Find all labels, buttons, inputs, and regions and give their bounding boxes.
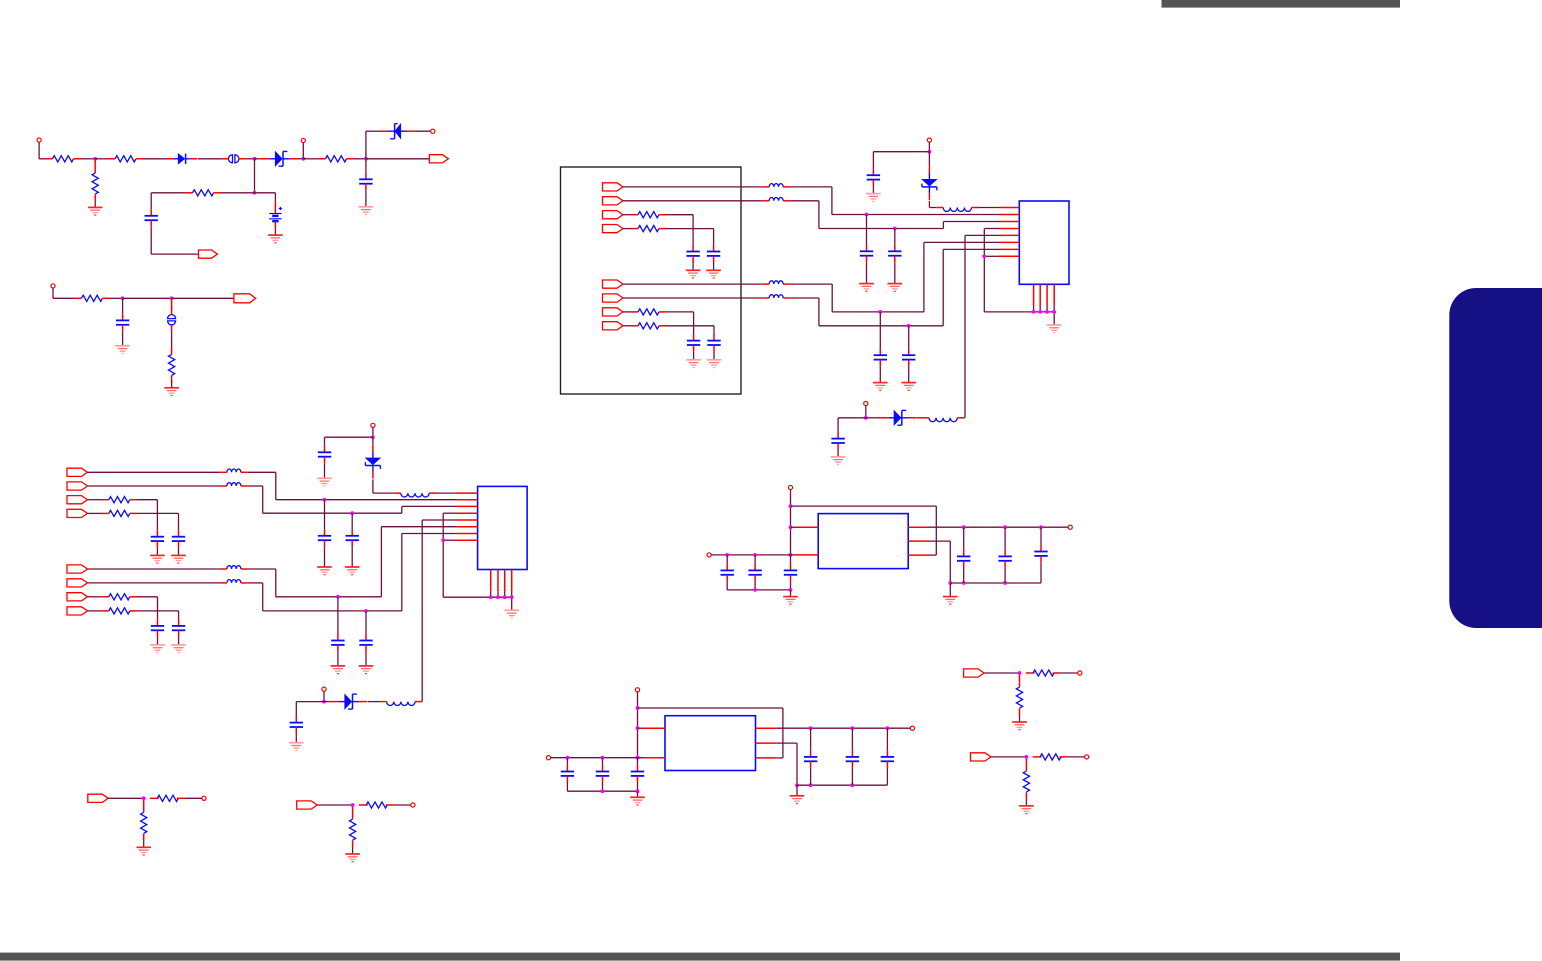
- node R1f: [754, 588, 757, 591]
- inductor L4: [380, 702, 422, 706]
- port OUT1: [429, 155, 448, 163]
- VR1 pin ADJ: [908, 540, 929, 542]
- capacitor C26: [784, 564, 797, 582]
- wire PA8-res: [623, 325, 631, 327]
- capacitor C23: [290, 716, 303, 734]
- wire PA7-res: [623, 311, 631, 313]
- wire REG1 left bus: [727, 589, 790, 591]
- ground G21: [317, 567, 332, 575]
- zener D5: [878, 410, 916, 425]
- VR1 pin OUT: [908, 526, 929, 528]
- wire C21-gnd: [365, 652, 367, 666]
- node R1h: [962, 526, 965, 529]
- capacitor C24: [721, 564, 734, 582]
- node R1l: [962, 581, 965, 584]
- terminal J11: [1068, 525, 1072, 529]
- wire C14-gnd: [156, 548, 158, 556]
- wire A11-D5: [866, 417, 881, 419]
- wire row5 route: [790, 242, 999, 312]
- resistor R10: [631, 309, 666, 315]
- wire R1b-pinIN: [791, 526, 797, 528]
- wire C10 stem: [879, 312, 881, 349]
- port PB6: [67, 579, 88, 587]
- wire R11-cap: [666, 326, 714, 334]
- wire R2b-pinIN: [638, 727, 644, 729]
- wire C35 stem: [886, 728, 888, 750]
- node R1d: [726, 553, 729, 556]
- capacitor C5: [707, 245, 720, 263]
- wire B row5 route: [248, 527, 457, 597]
- port PA2: [603, 197, 624, 205]
- port FB: [199, 250, 218, 258]
- node A3: [879, 310, 882, 313]
- node N4: [364, 157, 367, 160]
- node A9: [1053, 310, 1056, 313]
- ferrite bead FB8: [220, 483, 248, 486]
- RCB series pin2: [386, 804, 394, 806]
- wire C24 stem: [726, 555, 728, 564]
- wire PA4-res: [623, 228, 631, 230]
- U2 pin 5: [457, 519, 478, 521]
- ground G24: [359, 666, 374, 674]
- capacitor C19: [346, 529, 359, 547]
- resistor R2: [92, 173, 98, 194]
- wire C17-gnd: [178, 637, 180, 645]
- ground G4: [115, 346, 130, 354]
- capacitor C10: [874, 349, 887, 367]
- wire REG2 left bus: [567, 790, 637, 792]
- wire REG2 input line: [551, 757, 643, 759]
- wire RCD in: [991, 756, 1027, 758]
- wire N4 up: [366, 131, 380, 159]
- capacitor C28: [998, 550, 1011, 568]
- wire B row1 route: [248, 472, 457, 499]
- battery BT1: [269, 202, 282, 229]
- wire U1 gnd net: [984, 229, 1054, 326]
- wire R2k-gnd: [796, 785, 798, 796]
- U2 pin 7: [457, 533, 478, 535]
- node A11: [864, 416, 867, 419]
- terminal J14: [910, 726, 914, 730]
- wire B10-C22: [325, 437, 373, 446]
- RCD series pin2: [1060, 756, 1068, 758]
- RCB shunt pin2: [352, 840, 354, 847]
- wire C28 stem: [1004, 527, 1006, 550]
- wire C11-gnd: [908, 366, 910, 382]
- ferrite bead FB12: [220, 580, 248, 583]
- ground G5: [164, 388, 179, 396]
- wire C19-gnd: [351, 547, 353, 567]
- node R1e: [754, 553, 757, 556]
- wire row2 route: [790, 201, 999, 229]
- node R2m: [851, 784, 854, 787]
- node RCD: [1025, 755, 1028, 758]
- wire C10-gnd: [879, 366, 881, 382]
- node R2e: [601, 756, 604, 759]
- port PA6: [603, 294, 624, 302]
- wire C31 stem: [602, 758, 604, 765]
- resistor R1: [46, 156, 81, 162]
- wire F1-N2: [246, 158, 255, 160]
- port PRCC: [964, 669, 985, 677]
- node B5: [442, 539, 445, 542]
- ground RCCg: [1012, 722, 1027, 730]
- VR2 pin EN: [756, 757, 777, 759]
- wire R14-cap: [137, 597, 158, 620]
- wire C18-gnd: [324, 547, 326, 567]
- wire R1-J: [81, 158, 96, 160]
- U1 pin 4: [999, 228, 1019, 230]
- U1 bottom pin 11: [1046, 284, 1048, 306]
- zener D2: [259, 151, 297, 166]
- wire C29 stem: [1040, 527, 1042, 545]
- wire C19 stem: [351, 513, 353, 529]
- wire J1 drop: [38, 142, 40, 159]
- terminal RCBt: [411, 803, 415, 807]
- ground G23: [331, 666, 346, 674]
- RCB series pin: [359, 804, 368, 806]
- wire R12-cap: [137, 500, 158, 530]
- U2 pin 4: [457, 512, 478, 514]
- ground G16: [831, 457, 846, 465]
- ground G25: [504, 610, 519, 618]
- U1 bottom pin 9: [1033, 284, 1035, 306]
- wire REG1 top rail: [791, 506, 937, 555]
- RCC series pin: [1026, 672, 1035, 674]
- ground G6: [686, 270, 701, 278]
- connector box outline: [561, 167, 742, 394]
- resistor R13: [102, 510, 137, 516]
- wire J9 drop: [790, 490, 792, 555]
- wire U1 bpin10 drop: [1039, 306, 1041, 312]
- wire J4 drop: [53, 288, 74, 298]
- wire N5-BT1: [255, 193, 276, 202]
- wire U1 pin5 net: [965, 235, 999, 417]
- ground G7: [706, 270, 721, 278]
- wire PB1-bead: [88, 471, 220, 473]
- wire C34 drop: [851, 768, 853, 785]
- capacitor C17: [172, 619, 185, 637]
- wire PA5-bead: [623, 283, 762, 285]
- wire C7-gnd: [713, 352, 715, 360]
- ground G3: [268, 235, 283, 243]
- U2 bottom pin 10: [497, 570, 499, 592]
- U1 bottom pin 10: [1039, 284, 1041, 306]
- wire J2 drop: [302, 143, 304, 159]
- resistor RCDb: [1023, 771, 1029, 792]
- port PB1: [67, 468, 88, 476]
- port PB7: [67, 593, 88, 601]
- wire RCC in: [984, 672, 1020, 674]
- resistor R14: [102, 594, 137, 600]
- U2 pin 6: [457, 526, 478, 528]
- node R1c: [789, 553, 792, 556]
- VR2 pin IN: [643, 727, 665, 729]
- wire C30 drop: [566, 783, 568, 792]
- wire U1 bpin11 drop: [1046, 306, 1048, 312]
- node R2h: [809, 727, 812, 730]
- capacitor C3: [116, 314, 129, 332]
- node R2l: [809, 784, 812, 787]
- wire R10-cap: [666, 312, 694, 334]
- ferrite bead FB7: [762, 281, 790, 284]
- RCA shunt pin2: [143, 834, 145, 841]
- wire D2-N3: [297, 158, 303, 160]
- wire C27 stem: [963, 527, 965, 550]
- U1 pin 1: [999, 207, 1019, 209]
- resistor RCDa: [1040, 754, 1061, 760]
- RCD series pin: [1033, 756, 1042, 758]
- capacitor C13: [831, 432, 844, 450]
- wire C26 stem: [790, 555, 792, 564]
- node R2c: [636, 756, 639, 759]
- node A7: [1039, 310, 1042, 313]
- node B7: [496, 596, 499, 599]
- ground G30: [630, 797, 645, 805]
- resistor R8: [631, 212, 666, 218]
- wire PA2-bead: [623, 200, 762, 202]
- ground RCBg: [345, 854, 360, 862]
- wire REG2 adj route: [776, 743, 797, 785]
- port PA5: [603, 280, 624, 288]
- resistor R7: [169, 347, 175, 382]
- port PA4: [603, 225, 624, 233]
- port PA8: [603, 322, 624, 330]
- RCC shunt pin2: [1019, 708, 1021, 715]
- wire C21 stem: [365, 611, 367, 634]
- wire B row6 route: [248, 534, 457, 611]
- RCA shunt pin: [143, 800, 145, 812]
- node R1b: [789, 526, 792, 529]
- navy side tab: [1449, 288, 1542, 628]
- node R2i: [851, 727, 854, 730]
- wire R3-D1: [143, 158, 167, 160]
- ground G29: [943, 597, 958, 605]
- capacitor C33: [804, 750, 817, 768]
- wire main in: [39, 158, 45, 160]
- capacitor C30: [561, 765, 574, 783]
- wire FB2-R7: [171, 332, 173, 348]
- U1 pin 2: [999, 214, 1019, 216]
- wire row1 route: [790, 187, 999, 215]
- wire C33 stem: [810, 728, 812, 750]
- wire A10-D4: [928, 152, 930, 167]
- port PB2: [67, 482, 88, 490]
- ground G17: [150, 555, 165, 563]
- wire RCD out: [1067, 756, 1084, 758]
- port PRCB: [297, 801, 318, 809]
- node B1: [323, 498, 326, 501]
- wire row6 route: [790, 249, 999, 325]
- R2 bot pin: [94, 194, 96, 201]
- U2 bottom pin 9: [490, 570, 492, 592]
- wire REG2 out line: [776, 727, 910, 729]
- wire C12-gnd: [872, 186, 874, 193]
- VR1 pin IN: [796, 526, 818, 528]
- U2 pin 2: [457, 499, 478, 501]
- diode D1: [167, 154, 198, 164]
- wire L4-corner: [421, 701, 424, 703]
- wire C30 stem: [566, 758, 568, 765]
- resistor R4: [319, 156, 354, 162]
- wire N4-C1: [365, 159, 367, 173]
- U2 bottom pin 11: [504, 570, 506, 592]
- RCC series pin2: [1053, 672, 1061, 674]
- capacitor C1: [359, 173, 372, 191]
- U2 bottom pin 12: [511, 570, 513, 592]
- node R1m: [1004, 581, 1007, 584]
- U2 pin 1: [457, 492, 478, 494]
- node B9: [510, 596, 513, 599]
- wire C3-gnd: [122, 331, 124, 345]
- port PA3: [603, 211, 624, 219]
- capacitor C22: [318, 446, 331, 464]
- RCC shunt pin: [1019, 675, 1021, 687]
- terminal J6: [864, 401, 868, 405]
- wire B11-D7: [324, 701, 329, 703]
- wire N3-R4: [303, 158, 318, 160]
- node B4: [364, 609, 367, 612]
- wire REG2 top rail: [638, 708, 783, 758]
- ferrite bead FB7: [220, 469, 248, 472]
- node B2: [351, 512, 354, 515]
- wire C28 drop: [1004, 567, 1006, 583]
- wire R8-cap: [666, 215, 693, 245]
- wire D6-L3: [373, 479, 394, 493]
- wire C8 stem: [866, 215, 868, 245]
- wire RCB in: [317, 804, 353, 806]
- fuse F1: [222, 155, 246, 163]
- node B6: [489, 596, 492, 599]
- capacitor C15: [172, 530, 185, 548]
- capacitor C18: [318, 529, 331, 547]
- wire N7-out: [172, 297, 234, 299]
- D5-L2 pin: [917, 417, 922, 419]
- wire J8 drop: [323, 691, 325, 701]
- capacitor C31: [596, 765, 609, 783]
- capacitor C8: [860, 245, 873, 263]
- RCD shunt pin: [1025, 759, 1027, 771]
- wire C33 drop: [810, 768, 812, 785]
- wire U1 bpin12 drop: [1053, 306, 1055, 312]
- wire C25 stem: [754, 555, 756, 564]
- ground G13: [901, 383, 916, 391]
- U1 pin 6: [999, 241, 1019, 243]
- resistor RCCa: [1033, 670, 1054, 676]
- ground G27: [289, 743, 304, 751]
- capacitor C2: [145, 209, 158, 227]
- wire A11-C13: [838, 418, 866, 432]
- capacitor C35: [881, 750, 894, 768]
- wire R9-cap: [666, 229, 714, 245]
- port OUT2: [234, 294, 256, 303]
- wire A10-C12: [873, 152, 929, 169]
- node A5: [983, 255, 986, 258]
- terminal J13: [546, 756, 550, 760]
- ground G31: [790, 796, 805, 804]
- wire L2-corner: [963, 417, 966, 419]
- wire PA3-res: [623, 214, 631, 216]
- wire C27 drop: [963, 567, 965, 583]
- resistor R6: [74, 295, 109, 301]
- wire C15-gnd: [178, 548, 180, 556]
- wire C8-gnd: [866, 262, 868, 283]
- wire R1k-gnd: [949, 583, 951, 597]
- node B11: [322, 700, 325, 703]
- resistor R15: [102, 608, 137, 614]
- inductor L3: [394, 493, 436, 497]
- ground G28: [783, 597, 798, 605]
- node R1g: [789, 588, 792, 591]
- regulator VR1: [818, 514, 908, 569]
- capacitor C12: [867, 169, 880, 187]
- wire C13-gnd: [837, 450, 839, 457]
- N7-FB2 pin: [171, 300, 173, 310]
- R2 top pin: [94, 159, 96, 173]
- wire C4-gnd: [692, 263, 694, 271]
- wire REG1 adj route: [929, 541, 950, 583]
- wire N5-R5: [221, 192, 255, 194]
- node RCB: [351, 803, 354, 806]
- RCA series pin2: [177, 797, 185, 799]
- ground G18: [171, 555, 186, 563]
- zener D3: [380, 124, 415, 139]
- wire RCC gnd wire: [1019, 715, 1021, 722]
- node A2: [893, 227, 896, 230]
- port PB3: [67, 496, 88, 504]
- ground G15: [866, 194, 881, 202]
- wire PB7-res: [88, 596, 102, 598]
- U1 pin 8: [999, 255, 1019, 257]
- node N2: [253, 157, 256, 160]
- regulator VR2: [665, 716, 756, 771]
- resistor RCAb: [141, 812, 147, 833]
- wire REG1 out line: [929, 526, 1068, 528]
- wire PB2-bead: [88, 485, 220, 487]
- wire N6-N7: [123, 297, 172, 299]
- resistor RCBb: [350, 819, 356, 840]
- zener D6: [365, 445, 380, 479]
- U2 pin 8: [457, 539, 478, 541]
- port PA1: [603, 183, 624, 191]
- node R2k: [795, 784, 798, 787]
- ground RCDg: [1019, 806, 1034, 814]
- U1 pin 5: [999, 234, 1019, 236]
- port PA7: [603, 308, 624, 316]
- wire C26 drop: [790, 581, 792, 590]
- wire C32 drop: [637, 783, 639, 792]
- resistor R11: [631, 323, 666, 329]
- wire C1-gnd: [365, 190, 367, 207]
- capacitor C11: [902, 349, 915, 367]
- wire PA6-bead: [623, 297, 762, 299]
- terminal J2: [301, 138, 305, 142]
- terminal RCDt: [1085, 755, 1089, 759]
- wire R1g-gnd: [790, 590, 792, 597]
- wire C18 stem: [324, 500, 326, 530]
- terminal J3: [431, 129, 435, 133]
- U1 bottom pin 12: [1053, 284, 1055, 306]
- wire PB6-bead: [88, 582, 220, 584]
- wire D3-J3: [415, 130, 431, 132]
- VR1 pin GNDi: [796, 554, 818, 556]
- node N1: [94, 157, 97, 160]
- wire C23-gnd: [295, 734, 297, 743]
- wire C9 stem: [894, 229, 896, 245]
- node A10: [928, 150, 931, 153]
- capacitor C29: [1034, 545, 1047, 563]
- node N3: [302, 157, 305, 160]
